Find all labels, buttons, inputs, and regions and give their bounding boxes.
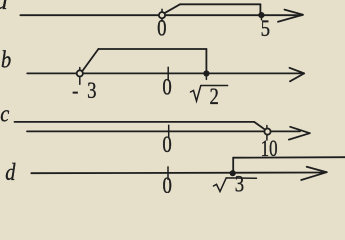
svg-text:3: 3 (87, 77, 96, 104)
tick at 10 on line c (266, 126, 268, 141)
tick at 0 on line d (167, 167, 169, 179)
diagonal riser from 0 on line a (164, 4, 180, 13)
tick below dot at sqrt2 (205, 74, 207, 80)
tick at 0 on line c (168, 125, 170, 137)
svg-text:0: 0 (162, 172, 171, 193)
tick at -3 on line b (79, 68, 81, 85)
filled dot at 5 on line a (258, 12, 264, 18)
svg-text:a: a (0, 0, 8, 15)
svg-text:3: 3 (235, 170, 244, 193)
arrowhead line d (301, 167, 327, 180)
open circle at -3 on line b (77, 70, 83, 76)
arrowhead line a (278, 10, 303, 22)
open circle at 0 on line a (159, 12, 165, 18)
diagonal drop to 10 on line c (254, 122, 265, 130)
arrowhead line b (290, 68, 305, 82)
raised segment (-inf,10) on line c (15, 121, 255, 123)
axis line d (31, 172, 324, 175)
svg-text:b: b (1, 46, 11, 73)
svg-text:-: - (72, 77, 78, 104)
radical sign of sqrt3 (214, 178, 257, 192)
raised segment (-3,sqrt2) on line b (98, 48, 206, 50)
svg-text:2: 2 (209, 83, 218, 110)
svg-text:0: 0 (157, 14, 166, 41)
tick at 0 on line b (167, 67, 169, 80)
axis line b (27, 72, 302, 74)
vertical drop at sqrt2 on line b (205, 49, 207, 72)
svg-text:10: 10 (261, 136, 278, 161)
filled dot at sqrt3 on line d (230, 170, 236, 176)
arrowhead line c (289, 127, 310, 140)
svg-text:0: 0 (162, 73, 171, 100)
tick at 0 on line a (161, 9, 163, 21)
diagonal riser from -3 on line b (82, 49, 98, 71)
svg-text:0: 0 (162, 131, 171, 158)
svg-text:d: d (5, 158, 16, 185)
axis line c (27, 130, 300, 132)
filled dot at sqrt2 on line b (203, 70, 209, 76)
svg-text:5: 5 (261, 15, 270, 42)
axis line a (20, 14, 302, 16)
raised segment (0,5) on line a (180, 3, 260, 5)
tick below dot at 5 (261, 15, 263, 20)
vertical riser at sqrt3 on line d (232, 158, 234, 172)
svg-text:c: c (0, 100, 9, 127)
radical sign of sqrt2 (191, 86, 228, 102)
raised segment (sqrt3,inf) on line d (233, 156, 345, 159)
open circle at 10 on line c (264, 129, 270, 135)
vertical drop at 5 on line a (259, 4, 261, 13)
